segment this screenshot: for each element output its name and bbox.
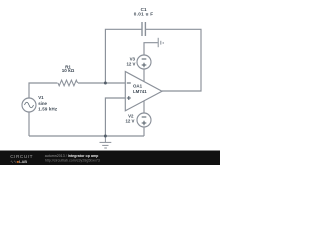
- wire V2 to op-amp V- pin: [143, 101, 145, 113]
- wire V3 to op-amp V+ pin: [143, 69, 145, 82]
- ground sideways (V3): [158, 38, 163, 47]
- svg-text:12 V: 12 V: [125, 119, 134, 124]
- node dot junction ground/bottom rail: [104, 135, 107, 138]
- svg-text:10 kΩ: 10 kΩ: [62, 68, 75, 73]
- wire bottom rail: [29, 135, 144, 137]
- wire R1 input segment from V1 top: [29, 83, 58, 98]
- label R1: [62, 64, 75, 73]
- svg-text:∿∿■LAB: ∿∿■LAB: [10, 159, 27, 164]
- source V1 sine: [22, 98, 36, 112]
- svg-text:1.59 kHz: 1.59 kHz: [38, 107, 58, 112]
- svg-text:OA1: OA1: [133, 84, 143, 89]
- capacitor C1: [142, 22, 145, 36]
- label V2 12 V: [125, 113, 134, 123]
- wire feedback right from C1 to output: [145, 29, 201, 91]
- svg-text:0.01 u F: 0.01 u F: [134, 12, 154, 17]
- svg-text:V1: V1: [38, 95, 44, 100]
- svg-text:http://circuitlab.com/c3y28g5b: http://circuitlab.com/c3y28g5bxx73: [45, 158, 100, 162]
- footer logo CIRCUIT LAB: [10, 154, 33, 164]
- wire R1 to op-amp minus input: [78, 82, 125, 84]
- svg-text:12 V: 12 V: [126, 62, 135, 67]
- svg-text:LM741: LM741: [133, 89, 147, 94]
- node dot junction feedback/R1: [104, 82, 107, 85]
- source V3: [137, 55, 151, 69]
- op-amp OA1: [125, 72, 162, 111]
- wire feedback left vertical: [105, 29, 142, 83]
- wire plus input to ground branch: [105, 98, 125, 136]
- label OA1 LM741: [133, 84, 147, 94]
- svg-text:V2: V2: [128, 113, 134, 118]
- wire V3 top to sideways ground: [144, 43, 158, 55]
- wire V1 bottom: [28, 112, 30, 136]
- ground bottom: [100, 136, 112, 148]
- label V1 sine 1.59 kHz: [38, 95, 58, 111]
- source V2: [137, 113, 151, 127]
- footer bar: [0, 151, 220, 166]
- svg-text:sine: sine: [38, 101, 47, 106]
- wire V2 bottom to rail: [143, 127, 145, 136]
- label V3 12 V: [126, 56, 135, 66]
- svg-text:V3: V3: [130, 56, 136, 61]
- resistor R1: [58, 80, 78, 86]
- label C1: [134, 7, 154, 17]
